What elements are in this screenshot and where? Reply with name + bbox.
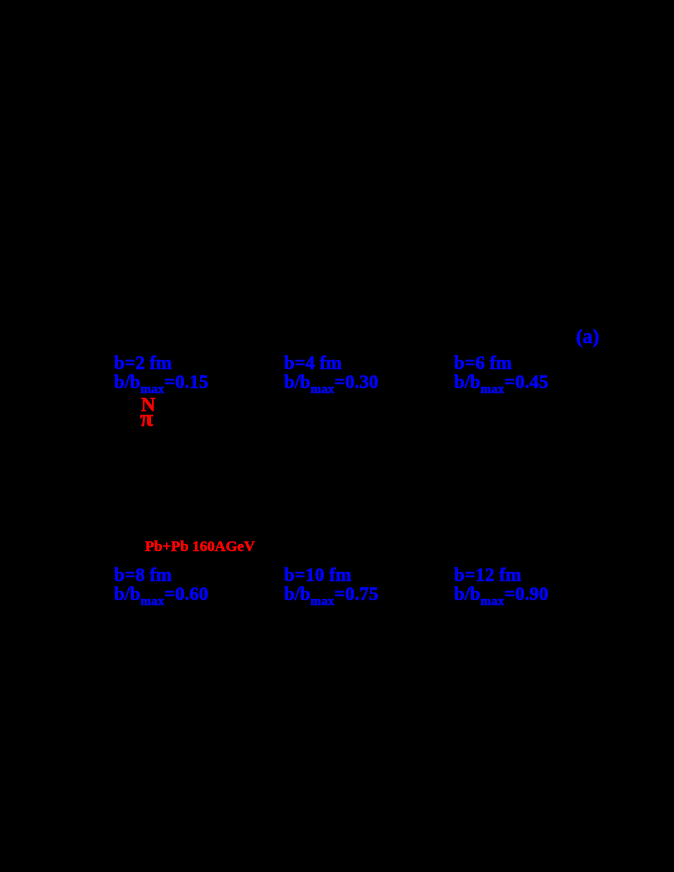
y-axis label N bbox=[141, 396, 155, 415]
label b=6 fm bbox=[454, 355, 548, 392]
label b=8 fm bbox=[114, 567, 208, 604]
annotation Pb+Pb 160AGeV bbox=[145, 538, 255, 557]
label b=2 fm bbox=[114, 355, 208, 392]
panel letter (a) bbox=[576, 328, 599, 347]
label b=12 fm bbox=[454, 567, 548, 604]
label b=10 fm bbox=[284, 567, 378, 604]
y-axis label pi subscript bbox=[140, 410, 153, 429]
label b=4 fm bbox=[284, 355, 378, 392]
